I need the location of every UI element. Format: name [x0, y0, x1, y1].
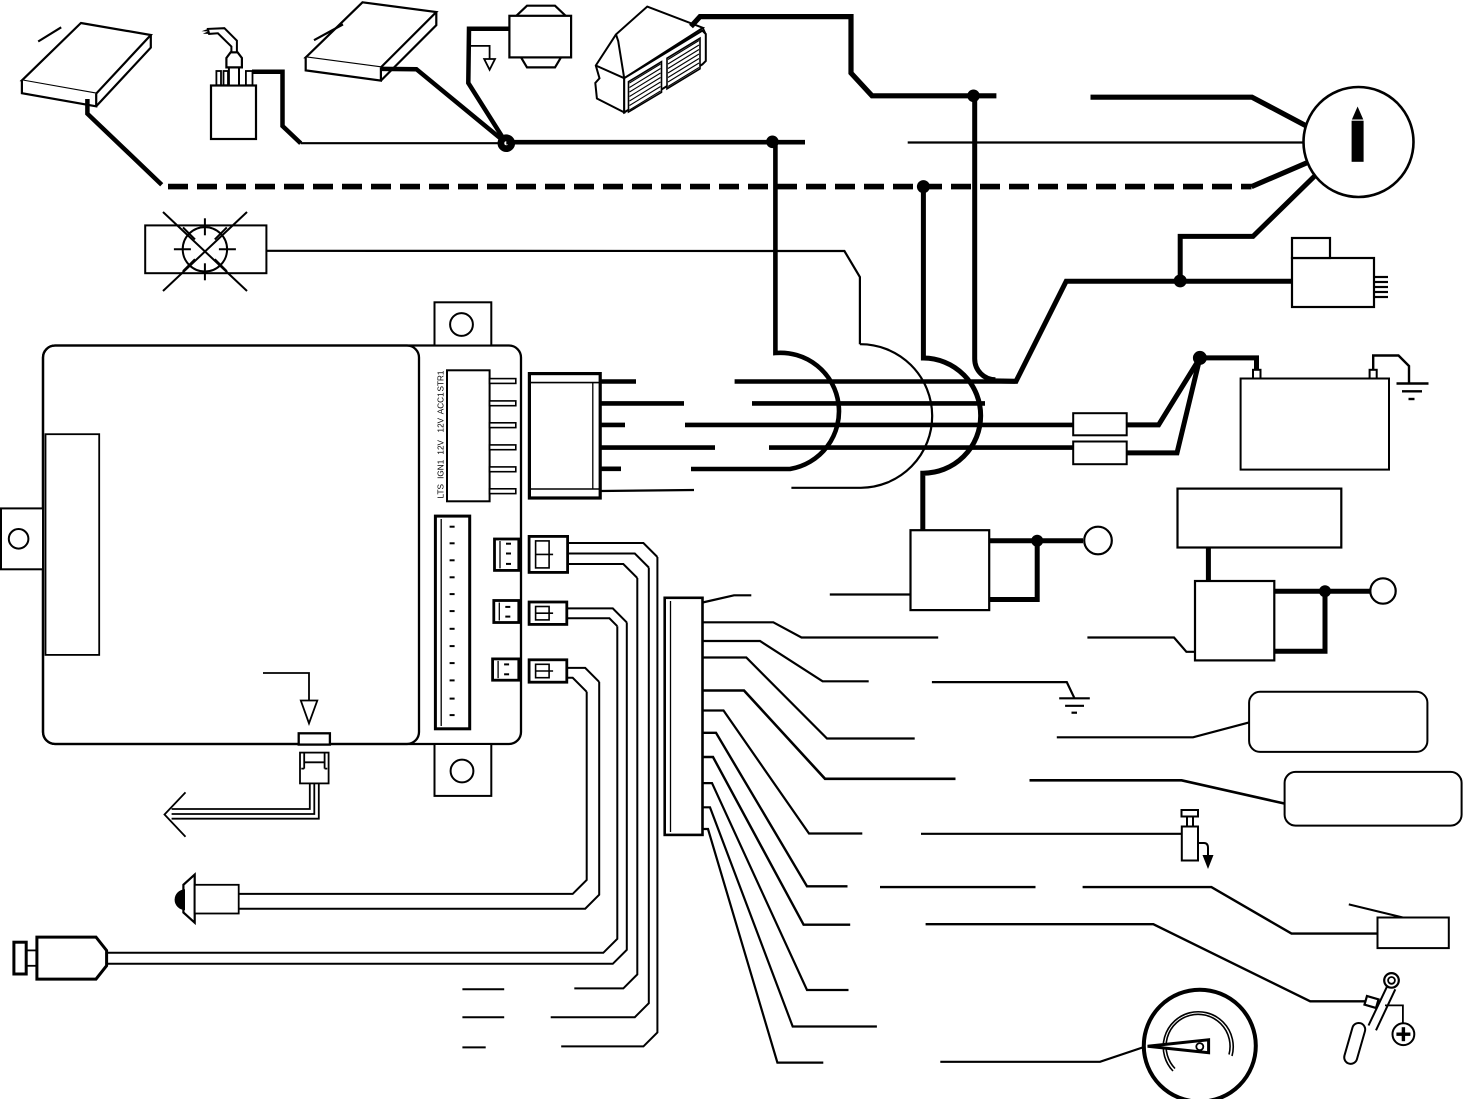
svg-text:12V: 12V: [437, 417, 446, 432]
starter node C: [1174, 274, 1187, 287]
relay R2: [1195, 581, 1274, 660]
strip wire 1 to relay R1: [703, 595, 911, 603]
module aux connector J1 (3-pin): [495, 539, 519, 570]
horn timer box R3: [1178, 489, 1342, 548]
node on R2 output: [1319, 585, 1331, 597]
node on rail (hook A tap): [766, 136, 779, 149]
junction node A: [498, 134, 516, 152]
wire from M1 to dashed antenna lead: [87, 99, 161, 185]
battery node D: [1193, 351, 1207, 365]
thin wire segment to junction node A: [301, 142, 507, 144]
strip wire 7 to dome module: [703, 733, 1378, 934]
strip wire 6 to door pin switch: [703, 711, 1182, 834]
wire from R3 down to relay R2: [1206, 548, 1211, 582]
dashed wire diagonal into ignition switch: [1252, 162, 1309, 187]
wire row 6 (LTS) thin segments: [600, 490, 694, 491]
module M2 (flat slab, top-middle): [306, 2, 437, 80]
module bottom port: [299, 733, 330, 744]
chassis ground symbol: [1059, 698, 1090, 712]
ignition switch (key circle): [1304, 87, 1414, 197]
harness plug P2 (3-pin): [529, 536, 568, 572]
3-wire ribbon to remote (arrow): [165, 783, 319, 836]
row 1 riser to starter node: [996, 281, 1292, 381]
main harness plug P1: [529, 374, 600, 498]
module aux connector J3 (2-pin): [493, 659, 519, 680]
relay R1 output loop and lamp L1: [989, 541, 1083, 600]
strip wire 8 to brake switch: [703, 757, 1368, 1001]
node on R1 output: [1031, 535, 1043, 547]
fuse F2: [1073, 442, 1127, 465]
tachometer gauge: [1144, 990, 1256, 1099]
module inner label area: [46, 434, 100, 655]
relay K1 (octagon can): [509, 6, 571, 68]
tap arrow from relay wire: [469, 46, 495, 70]
wire row 3 (12V) to fuse F1: [600, 423, 1073, 428]
harness plug P4 (2-pin): [529, 660, 567, 682]
node on dashed wire (hook C tap): [917, 180, 930, 193]
wire from coil (thick then joins thin line): [252, 72, 301, 143]
dashed wire (antenna lead): [161, 184, 1252, 190]
module aux connector J2 (2-pin): [494, 601, 519, 623]
wires from plug P3 into loom: [567, 608, 627, 626]
battery negative lead to ground: [1373, 356, 1409, 384]
wire from relay K1 to node A: [468, 29, 509, 144]
main control module (brain) outline: [43, 346, 521, 745]
thin accessory wire into ignition switch: [908, 141, 1304, 143]
svg-text:LTS: LTS: [437, 483, 446, 498]
handbrake lever assembly: [1343, 973, 1403, 1065]
svg-text:ACC1: ACC1: [437, 392, 446, 414]
output connector strip: [665, 598, 703, 835]
wire row 5 (IGN1) segments: [600, 466, 621, 471]
wire row 1 (STR1) segments: [600, 379, 1015, 384]
lamp L2: [1370, 578, 1395, 603]
hook A: rail tap looping to row 5: [691, 142, 839, 469]
relay R1: [911, 530, 990, 610]
fuse output wires to battery node D: [1127, 358, 1257, 453]
ground symbol (battery): [1397, 384, 1429, 400]
dome light (crossed out / not used): [145, 212, 266, 291]
strip wire 3 to chassis ground: [703, 641, 1075, 698]
trunk release label box: [1285, 772, 1462, 826]
svg-text:STR1: STR1: [437, 370, 446, 391]
strip wire 10 (spare): [703, 807, 877, 1026]
parklight label box: [1249, 692, 1427, 752]
door pin switch: [1182, 810, 1214, 869]
wires from plug P2 into loom: [568, 543, 658, 578]
strip wire 11 to tach: [703, 829, 824, 1063]
loom vertical wires down to LED / valet / spares: [107, 557, 658, 1046]
svg-text:IGN1: IGN1: [437, 459, 446, 479]
thick rail from node A rightwards: [506, 140, 805, 145]
module M1 (flat slab, top-left): [22, 23, 151, 106]
battery: [1241, 370, 1389, 470]
wire from M2 to node A: [381, 69, 506, 143]
tach signal wire: [940, 1047, 1144, 1062]
heavy wire from siren to main 12V rail: [691, 17, 996, 96]
strip wire 4 to parklight box: [703, 658, 1250, 739]
module bottom mounting tab: [435, 744, 492, 796]
plus (12V) circle: [1393, 1023, 1415, 1045]
header pin labels LTS IGN1 12V 12V ACC1 STR1: [437, 370, 446, 498]
strip wire 9 (spare): [703, 783, 849, 990]
branch from node C up to ignition switch: [1180, 175, 1315, 281]
module left mounting tab: [1, 508, 43, 569]
main 12V rail right segment into ignition switch: [1091, 97, 1308, 126]
node B on siren rail (hook D tap): [967, 90, 980, 103]
siren SP1: [595, 7, 706, 113]
ignition coil: [202, 28, 257, 139]
spare wire stubs: [462, 989, 504, 1047]
hook B: dome light wire looping to row 6: [791, 344, 932, 488]
lamp L1: [1084, 527, 1112, 555]
strip wire 2 to relay R2: [703, 622, 1196, 652]
status LED: [175, 875, 239, 923]
svg-text:12V: 12V: [437, 439, 446, 454]
module top mounting tab: [435, 302, 492, 345]
strip wire 5 to trunk box: [703, 691, 1287, 804]
wire row 4 (12V) to fuse F2: [600, 445, 1073, 450]
relay R2 output loop and lamp L2: [1274, 591, 1369, 651]
valet switch: [14, 937, 107, 979]
starter motor: [1292, 238, 1388, 307]
wire from dome light to hook B: [266, 251, 860, 344]
fuse F1: [1073, 413, 1127, 435]
wires from plug P4 into loom: [567, 668, 599, 692]
hook D: siren rail tap looping to starter feed: [975, 96, 996, 380]
data plug under module: [300, 753, 329, 784]
hook C: dashed-line tap looping down to relay R1: [923, 187, 981, 531]
wire row 2 (ACC1) segments: [600, 401, 985, 406]
internal arrow marker to bottom port: [263, 673, 317, 723]
harness plug P3 (2-pin): [529, 602, 567, 624]
interior light module box: [1349, 904, 1449, 948]
module 12-pin connector strip: [435, 516, 469, 729]
module 6-pin header H1: [447, 370, 516, 501]
